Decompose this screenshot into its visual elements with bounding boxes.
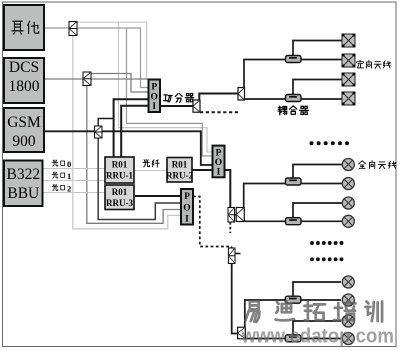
- svg-text:RRU-1: RRU-1: [106, 171, 133, 181]
- svg-text:I: I: [217, 167, 221, 177]
- svg-text:P: P: [151, 83, 157, 93]
- svg-text:2: 2: [67, 184, 71, 194]
- svg-text:I: I: [185, 215, 189, 225]
- svg-text:I: I: [152, 102, 156, 112]
- svg-text:1800: 1800: [9, 78, 40, 95]
- svg-text:O: O: [151, 92, 158, 102]
- svg-text:R01: R01: [172, 160, 188, 170]
- svg-text:GSM: GSM: [7, 114, 41, 131]
- svg-text:O: O: [183, 203, 190, 213]
- svg-text:P: P: [184, 192, 190, 202]
- svg-text:0: 0: [67, 159, 71, 169]
- svg-text:R01: R01: [112, 187, 128, 197]
- svg-text:www.edatop.com: www.edatop.com: [241, 326, 394, 348]
- svg-text:R01: R01: [112, 160, 128, 170]
- svg-text:B322: B322: [7, 166, 41, 183]
- svg-text:DCS: DCS: [9, 59, 39, 76]
- svg-text:BBU: BBU: [7, 185, 39, 202]
- svg-text:900: 900: [12, 133, 36, 150]
- svg-text:1: 1: [67, 171, 71, 181]
- svg-text:RRU-2: RRU-2: [166, 171, 193, 181]
- svg-text:RRU-3: RRU-3: [106, 198, 133, 208]
